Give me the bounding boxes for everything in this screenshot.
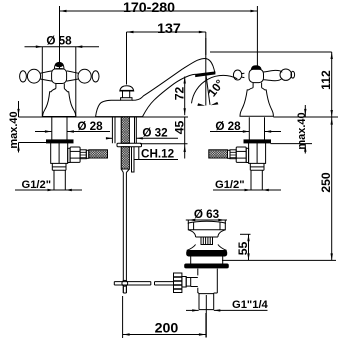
horizontal rod segment 1 (114, 282, 151, 285)
dimension 200 bottom (123, 296, 206, 338)
spout outlet mouth (196, 72, 215, 77)
left valve hose (braided) (89, 150, 108, 158)
dimension Ø58 handle (25, 35, 100, 117)
drain lever nut (182, 277, 186, 288)
dimension 55 drain (236, 234, 250, 260)
spout outline (96, 58, 215, 117)
dimension Ø28 right valve (210, 120, 281, 133)
right valve flange (244, 140, 271, 143)
spout knob cap (120, 86, 134, 91)
right valve hose collar (228, 150, 231, 158)
svg-text:Ø 28: Ø 28 (77, 120, 103, 133)
dimension 137 spout projection (127, 21, 206, 85)
right valve bell (240, 88, 273, 117)
dimension Ø28 left valve (35, 120, 110, 133)
left handle ball (52, 69, 67, 84)
spout shank lower hatched (121, 147, 129, 169)
svg-text:250: 250 (319, 172, 333, 193)
drain knurl ring (201, 237, 213, 245)
left handle knob left (27, 69, 40, 83)
right valve stem tube (249, 117, 264, 140)
left handle end disc right (92, 71, 99, 82)
right valve below deck (209, 117, 271, 190)
spout locknut (117, 143, 142, 146)
label CH.12 (139, 148, 178, 161)
pop-up drain assembly (182, 221, 228, 337)
right handle knob right (280, 69, 292, 80)
svg-text:max.40: max.40 (8, 111, 20, 148)
right valve hose (braided) (209, 150, 228, 158)
dimension 45 under-counter (140, 117, 188, 159)
right handle right arm (264, 70, 283, 80)
left valve side port knurl (80, 150, 86, 159)
svg-text:112: 112 (319, 70, 333, 90)
dimension max.40 right (271, 105, 313, 154)
drain tailpipe (198, 269, 218, 293)
counter reference line right (273, 116, 338, 118)
rod adjuster knurled knob (174, 273, 182, 293)
svg-text:170-280: 170-280 (123, 0, 175, 16)
left valve tailpiece tube (54, 170, 65, 190)
svg-text:137: 137 (157, 21, 181, 37)
right valve tailpiece tube (251, 170, 262, 190)
left valve body (51, 143, 68, 164)
pop-up rod linkage (114, 273, 182, 293)
svg-text:Ø 63: Ø 63 (194, 208, 220, 221)
svg-text:45: 45 (172, 121, 186, 135)
right handle cap (251, 66, 261, 69)
pop-up rod vertical (123, 173, 126, 294)
dimension G1/2 right (213, 179, 281, 191)
dimension max.40 left (8, 101, 46, 153)
right valve ridges (250, 163, 264, 170)
right handle cross (233, 66, 294, 117)
dimension G1"1/4 drain tail (186, 299, 269, 312)
left handle end disc left (20, 71, 27, 82)
spout shank inner lines (115, 117, 135, 143)
dimension Ø32 spout shank (106, 127, 178, 140)
spout shank outer tube (112, 117, 136, 143)
drain gasket (black) (187, 251, 227, 257)
dimension 72 spout outlet height (172, 77, 186, 116)
svg-text:Ø 58: Ø 58 (46, 35, 72, 48)
spout body (96, 58, 215, 117)
spout shank below deck (112, 117, 141, 293)
svg-text:Ø 28: Ø 28 (215, 120, 241, 133)
left valve below deck (47, 117, 108, 190)
left valve ridges (52, 163, 66, 170)
drain body (191, 256, 223, 264)
drain lever port cylinder (191, 278, 198, 287)
svg-text:CH.12: CH.12 (141, 148, 175, 161)
drain lower gasket (black) (185, 264, 229, 268)
spout knob neck (123, 91, 130, 98)
right handle knob left (233, 70, 241, 80)
left valve hose collar (86, 150, 89, 158)
counter reference line left (under faucet) (19, 116, 189, 118)
left handle cross (20, 62, 99, 116)
left handle left arm (40, 71, 52, 81)
horizontal rod segment 2 (155, 282, 174, 285)
svg-text:G1/2": G1/2" (22, 179, 52, 191)
dimension 250 depth (319, 117, 333, 260)
dimension G1/2 left (15, 179, 82, 191)
left handle stem (56, 84, 64, 89)
spout knob flange (121, 98, 132, 101)
left handle cap (54, 62, 64, 69)
angle 10 degrees annotation (192, 38, 238, 106)
drain tail tube G1 1/4 (199, 293, 214, 310)
drain neck concave (188, 230, 225, 237)
drain tube center line (205, 295, 207, 338)
svg-text:72: 72 (172, 87, 186, 101)
right handle end disc (291, 71, 295, 78)
left handle knob right (78, 69, 91, 83)
svg-text:200: 200 (155, 321, 179, 337)
left valve flange (47, 140, 74, 143)
dimension 170-280 top (60, 0, 258, 70)
spout shank taper (121, 169, 129, 173)
svg-text:Ø 32: Ø 32 (142, 127, 168, 140)
left valve bell (43, 89, 76, 117)
right handle ball (249, 69, 264, 82)
rod vertical lower end (123, 286, 126, 293)
drain bottom reference line (222, 259, 336, 261)
drain cone flare (187, 245, 227, 251)
left valve side port ring (68, 148, 70, 162)
svg-text:G1"1/4: G1"1/4 (232, 299, 269, 311)
left handle right arm (67, 71, 79, 81)
svg-text:55: 55 (236, 242, 250, 256)
dimension 112 height (210, 52, 333, 117)
right valve side port ring (246, 148, 248, 162)
svg-text:max.40: max.40 (296, 112, 308, 149)
rod ball joint (122, 280, 128, 286)
right valve body (249, 143, 266, 164)
right valve side port knurl (230, 150, 236, 159)
spout threaded shank (hatched) (121, 117, 129, 143)
left valve stem tube (52, 117, 67, 140)
right handle stem (253, 83, 262, 88)
spout tube A (132, 147, 135, 172)
svg-text:G1/2": G1/2" (215, 179, 245, 191)
spout base bottom (96, 116, 143, 118)
right valve side port nut (236, 147, 246, 162)
left valve side port nut (70, 147, 80, 162)
dimension Ø63 drain (186, 208, 227, 224)
spout tube B (134, 147, 139, 160)
drain cap (188, 221, 225, 230)
